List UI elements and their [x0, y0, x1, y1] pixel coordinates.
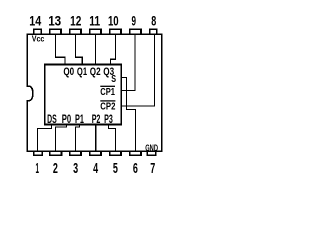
pin 10: [110, 29, 121, 34]
svg-text:10: 10: [108, 13, 119, 29]
pin 9: [130, 29, 141, 34]
function block U1: [45, 65, 121, 125]
svg-text:5: 5: [113, 160, 118, 177]
svg-text:3: 3: [73, 160, 78, 177]
svg-text:7: 7: [150, 160, 155, 177]
wire pin12 to Q1: [76, 34, 83, 64]
pin 7: [147, 151, 155, 155]
svg-text:Q2: Q2: [90, 66, 101, 78]
svg-text:CP2: CP2: [100, 102, 115, 113]
wire pin8 to CP2: [122, 34, 155, 105]
svg-text:P1: P1: [75, 114, 84, 126]
svg-text:14: 14: [29, 13, 41, 29]
svg-text:Vcc: Vcc: [32, 34, 45, 43]
svg-text:P2: P2: [92, 114, 101, 126]
wire pin2 to P0: [56, 125, 67, 152]
pin 14: [34, 29, 42, 34]
pin 5: [110, 151, 121, 155]
svg-text:12: 12: [70, 13, 81, 29]
svg-text:S: S: [111, 74, 116, 85]
package outline DIP-14: [27, 34, 161, 151]
pin 3: [70, 151, 81, 155]
svg-text:2: 2: [53, 160, 58, 177]
wire pin1 to DS: [37, 125, 51, 152]
svg-text:13: 13: [48, 13, 61, 29]
svg-text:DS: DS: [47, 114, 57, 126]
wire pin3 to P1: [76, 125, 80, 152]
pin 2: [50, 151, 62, 155]
pin 13: [50, 29, 61, 34]
svg-text:P0: P0: [62, 114, 71, 126]
svg-text:Q0: Q0: [63, 66, 74, 78]
svg-text:9: 9: [132, 13, 137, 29]
svg-text:P3: P3: [104, 114, 113, 126]
svg-text:4: 4: [93, 160, 98, 177]
svg-text:1: 1: [35, 160, 39, 177]
pin 4: [90, 151, 101, 155]
svg-text:CP1: CP1: [100, 87, 115, 98]
wire pin13 to Q0: [56, 34, 65, 64]
wire pin5 to P3: [109, 125, 116, 152]
svg-text:6: 6: [133, 160, 138, 177]
wire pin10 to Q3: [110, 34, 115, 64]
pin 11: [90, 29, 101, 34]
wire pin9 to CP1: [122, 34, 135, 90]
svg-text:11: 11: [89, 13, 100, 29]
svg-text:GND: GND: [145, 143, 158, 154]
wire pin4 to P2: [95, 125, 97, 152]
wire S to pin6: [122, 78, 136, 152]
pin 1: [34, 151, 43, 155]
svg-text:8: 8: [151, 13, 156, 29]
pin 6: [130, 151, 141, 155]
pin 8: [150, 29, 157, 34]
svg-text:Q1: Q1: [77, 66, 87, 78]
overbar CP1: [100, 85, 115, 87]
overbar CP2: [100, 100, 115, 102]
pin 12: [70, 29, 81, 34]
wire pin11 to Q2: [95, 34, 97, 64]
